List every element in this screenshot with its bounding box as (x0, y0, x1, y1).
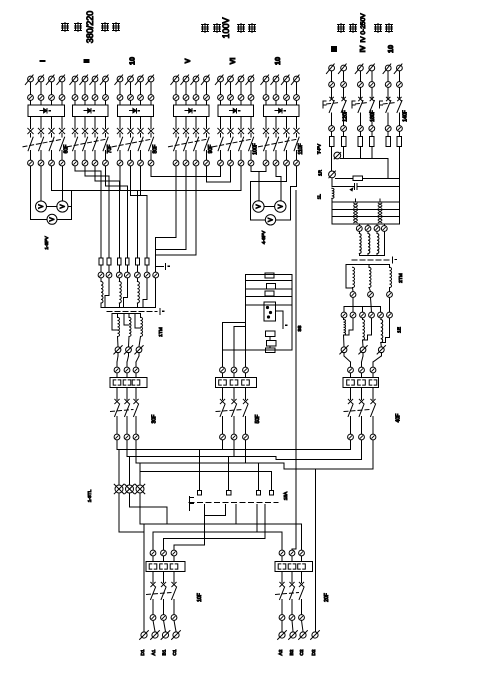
wires 1E to 40F (344, 353, 381, 367)
wires to switch 15A (199, 450, 201, 491)
wires 4-6PV (251, 207, 291, 220)
svg-text:V: V (50, 217, 56, 221)
svg-text:IV: IV (358, 45, 367, 52)
breaker 20F (276, 572, 331, 615)
svg-text:VI: VI (228, 58, 237, 65)
feeder group II terminals (72, 95, 108, 101)
label AC 100V output (vertical CJK) (202, 17, 256, 38)
DC section label 10 (386, 45, 395, 53)
svg-text:60F: 60F (64, 145, 70, 154)
voltmeter 2PV (57, 201, 68, 212)
rectifier box group V (174, 100, 209, 116)
svg-text:1E: 1E (397, 327, 403, 333)
svg-text:A2: A2 (278, 649, 284, 655)
svg-text:1L: 1L (316, 194, 321, 200)
label 1-3PV (44, 236, 50, 250)
switch 15A (189, 491, 289, 513)
current transformer box 50F (216, 373, 257, 388)
DC switch 130F (352, 87, 375, 125)
outgoing terminals 10F (140, 620, 181, 655)
wires 3S selector output taps (223, 275, 293, 368)
DC group 10 terminals (385, 82, 402, 88)
svg-text:1R: 1R (318, 169, 323, 176)
svg-text:I: I (38, 60, 47, 62)
rectifier box group 10 (264, 100, 299, 116)
DC section label III (330, 46, 339, 52)
bus section label 10 (273, 57, 282, 65)
switch 20F upper terminals (279, 550, 304, 556)
transformer 2TM primary windings (359, 231, 384, 255)
DC switch label 120F (343, 110, 349, 121)
DC switch label 130F (370, 110, 376, 121)
feeder group 10 terminals (263, 95, 299, 101)
svg-text:C1: C1 (172, 649, 178, 655)
feeder group I lower terminals (28, 160, 65, 166)
wires 2TM to 1E row (344, 298, 390, 313)
svg-text:V: V (269, 218, 275, 222)
breaker 50F lower terminals (220, 434, 249, 440)
svg-text:40F: 40F (396, 414, 402, 423)
svg-text:III: III (330, 46, 339, 52)
current transformer box 10F (146, 556, 185, 572)
meter 1R circle (318, 147, 336, 178)
rectifier box group I (28, 100, 64, 116)
DC group IV terminals (358, 82, 375, 88)
svg-text:V: V (39, 204, 45, 208)
resistors group IV (358, 131, 374, 146)
resistors group 10 (386, 131, 402, 146)
transformer 2TM label (398, 273, 404, 283)
fuse switch label 110F (298, 143, 304, 154)
DC switch label 140F (403, 110, 409, 121)
resistor 1R (335, 147, 399, 181)
svg-text:90F: 90F (208, 145, 214, 154)
switch 110F group 10 (259, 134, 300, 160)
reactor 1E windings (344, 318, 403, 343)
DC group IV lamps (355, 64, 374, 82)
switch 50F upper terminals (220, 367, 249, 373)
wires group I to voltmeters (31, 166, 72, 220)
DC group III lower terminals (329, 126, 347, 132)
svg-text:120F: 120F (343, 110, 349, 121)
switch 90F group V (169, 134, 210, 160)
feeder group 10 lower terminals (117, 160, 154, 166)
svg-text:130F: 130F (370, 110, 376, 121)
shield of 1TM (107, 309, 164, 315)
bus section label II (82, 59, 91, 63)
feeder group I terminals (28, 95, 65, 101)
feeder group 10 terminals (117, 95, 154, 101)
breaker 10F lower terminals (150, 615, 177, 621)
transformer 1TM primary windings (101, 278, 156, 308)
svg-text:II: II (82, 59, 91, 63)
fuse switch label 100F (253, 143, 259, 154)
svg-text:V: V (257, 204, 263, 208)
label 3S (297, 326, 303, 332)
fuses group I (28, 116, 65, 133)
svg-text:1TM: 1TM (158, 327, 164, 337)
fuse switch label 60F (64, 145, 70, 154)
feeder group I lamps (25, 75, 65, 95)
rectifier box group 10 (118, 100, 154, 116)
svg-text:IV 0-250V: IV 0-250V (360, 13, 367, 43)
feeder group 10 lamps (115, 75, 154, 95)
transformer 2TM input terminals (356, 224, 387, 231)
svg-text:1-3PV: 1-3PV (44, 236, 50, 250)
transformer 2TM secondary windings (346, 265, 392, 289)
saturable transformer ladder (332, 171, 400, 224)
fuses group 10 (117, 116, 153, 133)
current transformer box 40F (343, 373, 379, 388)
fuse switch label 90F (208, 145, 214, 154)
svg-text:10: 10 (273, 57, 282, 65)
reactor 1E input terminals (341, 312, 392, 318)
DC group III terminals (329, 82, 347, 88)
selector switch 3S box (246, 273, 293, 353)
svg-text:380/220: 380/220 (85, 11, 95, 44)
inductor 1L (316, 188, 334, 199)
feeder group V lamps (171, 75, 210, 95)
svg-text:V: V (279, 204, 285, 208)
svg-text:30F: 30F (152, 415, 158, 424)
dc bus wires (117, 440, 373, 491)
voltmeter 5PV (275, 201, 286, 212)
svg-text:2TM: 2TM (398, 273, 404, 283)
DC group 10 lower terminals (385, 126, 402, 132)
rectifier box group VI (218, 100, 253, 116)
breaker 40F (344, 388, 402, 435)
2TM secondary terminals (350, 288, 392, 298)
svg-text:80F: 80F (153, 145, 159, 154)
switch 80F group 10 (113, 134, 154, 160)
1TM secondary terminals (114, 337, 143, 355)
DC switch 140F (380, 87, 402, 125)
label DC IV 0-250V output (vertical CJK) (338, 13, 393, 43)
feeder group 10 lamps (261, 75, 300, 95)
svg-text:3S: 3S (297, 326, 303, 332)
DC section label IV (358, 45, 367, 52)
fuses group V (173, 116, 209, 133)
svg-text:V: V (61, 204, 67, 208)
fuses group VI (218, 116, 254, 133)
bus section label 10 (128, 57, 137, 65)
label AC 380/220V output (vertical CJK) (62, 11, 120, 44)
switch 60F group I (23, 134, 65, 160)
voltmeter 6PV (265, 215, 275, 225)
feeder group II lamps (70, 75, 109, 95)
svg-text:70F: 70F (107, 145, 113, 154)
resistors group III (329, 131, 346, 146)
capacitor 1C (332, 178, 400, 191)
transformer 1TM secondary windings (112, 314, 143, 337)
feeder group II lower terminals (72, 160, 108, 166)
wires 1TM to 30F (117, 353, 139, 367)
svg-text:D2: D2 (311, 649, 317, 655)
voltmeter 1PV (36, 201, 47, 212)
svg-text:100F: 100F (253, 143, 259, 154)
feeder group VI lower terminals (218, 160, 254, 166)
DC switch 120F (323, 87, 346, 125)
shield tap right of fuses (156, 264, 170, 270)
fuses group II (72, 116, 108, 133)
switch 100F group VI (213, 134, 254, 160)
svg-text:50F: 50F (255, 415, 261, 424)
bus section label I (38, 60, 47, 62)
svg-text:D1: D1 (140, 649, 146, 655)
label 4-6PV (261, 230, 267, 244)
svg-text:10F: 10F (197, 593, 203, 602)
shield of 2TM (352, 257, 396, 263)
fuse switch label 70F (107, 145, 113, 154)
voltmeter T-PV (317, 143, 341, 159)
switch 10F upper terminals (150, 550, 177, 556)
svg-text:C2: C2 (299, 649, 305, 655)
svg-text:20F: 20F (324, 593, 330, 602)
svg-text:15A: 15A (283, 491, 289, 500)
svg-text:B1: B1 (162, 649, 168, 655)
breaker 50F (216, 388, 261, 435)
DC group III lamps (326, 64, 346, 82)
svg-text:B2: B2 (289, 649, 295, 655)
fuses group 10 (263, 116, 299, 133)
svg-text:10: 10 (128, 57, 137, 65)
DC group 10 lamps (383, 64, 402, 82)
DC group IV lower terminals (358, 126, 375, 132)
svg-text:A1: A1 (151, 649, 157, 655)
svg-text:140F: 140F (403, 110, 409, 121)
feeder group VI terminals (218, 95, 254, 101)
feeder group V terminals (173, 95, 209, 101)
signal lamps 1-3TL (87, 484, 145, 502)
bus wires feeders II and III to fuses (75, 166, 221, 196)
switch 30F upper terminals (114, 367, 139, 373)
transformer 1TM label (158, 327, 164, 337)
fuses of transformer 1TM (99, 171, 156, 272)
fuse switch label 80F (153, 145, 159, 154)
feeder group V lower terminals (173, 160, 209, 166)
current transformer box 20F (275, 556, 313, 572)
switch 40F upper terminals (348, 367, 376, 373)
voltmeter 3PV (47, 214, 57, 224)
bus section label V (183, 58, 192, 63)
svg-text:T-PV: T-PV (317, 143, 322, 154)
breaker 10F (147, 572, 204, 615)
svg-text:10: 10 (386, 45, 395, 53)
wire T-PV row (341, 147, 389, 159)
breaker 20F lower terminals (279, 615, 304, 621)
svg-text:4-6PV: 4-6PV (261, 230, 267, 244)
wires 15A to distribution breakers (119, 469, 316, 632)
breaker 40F lower terminals (348, 434, 376, 440)
breaker 30F lower terminals (114, 434, 139, 440)
bus section label VI (228, 58, 237, 65)
outgoing terminals 20F (278, 620, 320, 655)
svg-text:100V: 100V (221, 17, 231, 38)
switch 70F group II (68, 134, 109, 160)
transformer 1TM input terminals (98, 272, 159, 278)
svg-text:V: V (183, 58, 192, 63)
feeder group 10 lower terminals (263, 160, 299, 166)
svg-text:110F: 110F (298, 143, 304, 154)
current transformer box 30F (110, 373, 147, 388)
bus wires feeders V VI VII (72, 166, 297, 549)
voltmeter 4PV (253, 201, 264, 212)
feeder group VI lamps (215, 75, 254, 95)
rectifier box group II (73, 100, 108, 116)
breaker 30F (111, 388, 158, 435)
reactor 1E output terminals (340, 335, 386, 354)
svg-text:1-3TL: 1-3TL (87, 489, 93, 502)
